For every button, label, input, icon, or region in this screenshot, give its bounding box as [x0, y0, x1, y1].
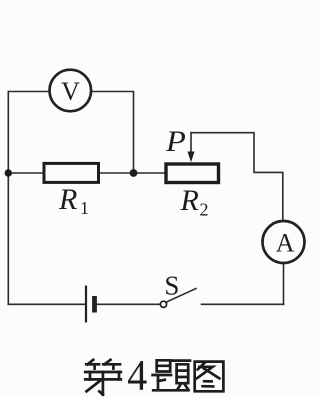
- svg-text:S: S: [164, 270, 179, 300]
- svg-text:2: 2: [200, 200, 209, 220]
- svg-text:P: P: [165, 125, 186, 158]
- svg-text:4: 4: [127, 352, 147, 397]
- svg-text:V: V: [61, 77, 80, 106]
- svg-text:R: R: [58, 183, 77, 216]
- svg-text:1: 1: [80, 198, 89, 218]
- svg-text:R: R: [180, 184, 199, 217]
- svg-text:A: A: [276, 229, 295, 258]
